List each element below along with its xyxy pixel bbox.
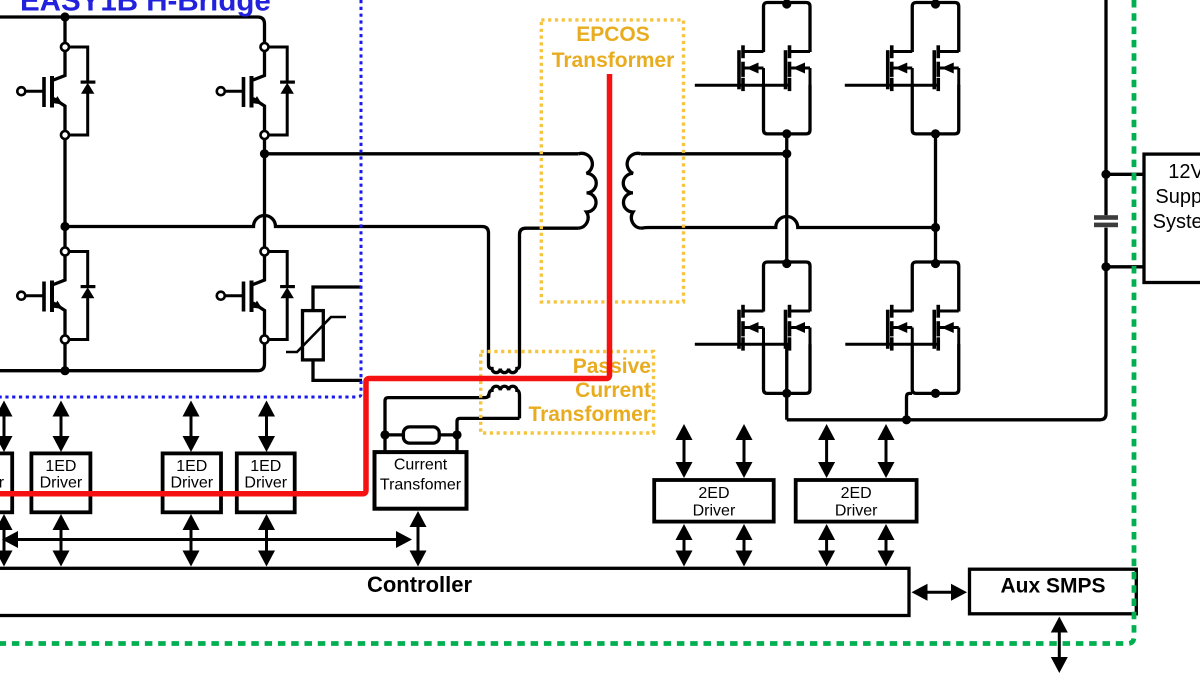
inductor primary winding — [579, 153, 597, 228]
wire gate stub M3/M4 — [845, 84, 938, 87]
thermistor RT1 slash — [286, 317, 346, 352]
wire primary top — [265, 152, 579, 155]
block Controller — [0, 568, 909, 615]
wire 12V rail upper — [1104, 0, 1107, 215]
wire secondary bottom with hop — [641, 217, 936, 229]
wire rectifier output bus — [787, 228, 1106, 420]
wire thermistor bottom — [313, 360, 362, 381]
wire CT secondary right — [457, 418, 520, 431]
arrow 1ED Driver 2 to controller — [53, 514, 70, 530]
inductor secondary winding — [623, 153, 641, 228]
transistor pair M7/M8 bottom-right — [888, 259, 959, 398]
callout box EPCOS Transformer — [541, 20, 683, 302]
inductor CT secondary turn — [489, 386, 520, 418]
wire left leg bottom — [63, 344, 66, 371]
svg-text:System: System — [1153, 211, 1200, 233]
wire highlighted current path (red) — [0, 74, 610, 494]
wire top DC+ rail — [0, 17, 265, 43]
node burden left — [380, 430, 389, 439]
arrow Current Transformer to controller — [410, 511, 427, 527]
wire CT secondary left — [385, 394, 489, 431]
wire gate stub M5/M6 — [695, 343, 790, 346]
transistor Q3 IGBT bottom-left — [17, 248, 95, 344]
block 12V Supply System — [1144, 154, 1200, 282]
wire left column link — [785, 134, 788, 262]
svg-text:Driver: Driver — [0, 475, 5, 492]
block 1ED Driver 1 — [0, 453, 12, 512]
callout box Passive Current Transformer — [481, 352, 654, 434]
node phase B junction — [260, 149, 269, 158]
wire phase A mid rail with hop — [65, 216, 489, 362]
svg-text:2ED: 2ED — [841, 485, 872, 502]
node phase A junction — [60, 222, 69, 231]
arrow 2ED Driver 2 to rectifier — [878, 424, 895, 440]
arrow controller to Aux SMPS — [912, 584, 928, 601]
transistor Q1 IGBT top-left — [17, 43, 95, 139]
wire M5/M6 centre tap down — [785, 344, 788, 420]
transistor pair M5/M6 bottom-left — [739, 259, 810, 398]
wire to supply system top — [1106, 173, 1146, 176]
arrow H-bridge to 1ED Driver 4 — [258, 401, 275, 417]
wire left leg drop — [63, 17, 66, 43]
transistor pair M1/M2 top-left — [739, 0, 810, 139]
wire left leg mid — [63, 139, 66, 248]
node secondary bottom junction — [931, 223, 940, 232]
block Aux SMPS — [970, 569, 1137, 614]
node top rail / left leg junction — [60, 12, 69, 21]
svg-text:1ED: 1ED — [250, 458, 281, 475]
block 1ED Driver 3 — [163, 453, 221, 512]
svg-text:1ED: 1ED — [45, 458, 76, 475]
svg-text:Driver: Driver — [693, 503, 736, 520]
wire to supply system bottom — [1106, 265, 1146, 268]
block 1ED Driver 2 — [31, 453, 90, 512]
node burden right — [452, 430, 461, 439]
wire thermistor top — [313, 287, 361, 311]
node 12V supply bottom — [1101, 262, 1110, 271]
svg-text:Transfomer: Transfomer — [380, 477, 462, 494]
thermistor RT1 body — [303, 311, 324, 360]
block 2ED Driver 2 — [796, 480, 917, 522]
transistor Q4 IGBT bottom-right — [217, 248, 295, 344]
svg-text:1ED: 1ED — [176, 458, 207, 475]
arrow signal bus horizontal — [2, 531, 18, 548]
svg-text:Driver: Driver — [40, 475, 83, 492]
arrow 2ED Driver 2 to controller — [818, 524, 835, 540]
block 2ED Driver 1 — [654, 480, 774, 522]
node DC- rail junction — [60, 366, 69, 375]
svg-text:Driver: Driver — [835, 503, 878, 520]
node rectifier output junction — [902, 415, 911, 424]
node secondary top junction — [782, 149, 791, 158]
block Current Transformer — [375, 452, 467, 509]
svg-text:Current: Current — [394, 457, 448, 474]
wire to burden resistor — [385, 433, 403, 436]
wire burden to CT box — [383, 435, 386, 452]
svg-text:Current: Current — [575, 379, 651, 402]
svg-text:Transformer: Transformer — [528, 403, 651, 426]
svg-text:EPCOS: EPCOS — [576, 23, 650, 46]
svg-text:Aux SMPS: Aux SMPS — [1000, 575, 1105, 598]
svg-text:Supply: Supply — [1155, 186, 1200, 208]
arrow H-bridge to 1ED Driver 1 — [0, 401, 13, 417]
transistor Q2 IGBT top-right — [217, 43, 295, 139]
wire gate stub M7/M8 — [845, 343, 938, 346]
arrow 1ED Driver 1 to controller — [0, 514, 13, 530]
wire gate stub M1/M2 — [695, 84, 790, 87]
wire right column link — [934, 134, 937, 262]
svg-text:Driver: Driver — [244, 475, 287, 492]
wire M7/M8 source down — [907, 393, 913, 419]
arrow 2ED Driver 2 to rectifier — [818, 424, 835, 440]
svg-text:12V: 12V — [1168, 161, 1200, 183]
wire right leg mid — [263, 139, 266, 248]
resistor burden R1 — [403, 427, 439, 443]
svg-text:EASY1B H-Bridge: EASY1B H-Bridge — [20, 0, 271, 18]
capacitor C1 plates — [1094, 215, 1118, 220]
arrow 2ED Driver 1 to rectifier — [736, 424, 753, 440]
wire secondary top — [641, 152, 787, 155]
arrow 2ED Driver 1 to controller — [736, 524, 753, 540]
arrow 1ED Driver 4 to controller — [258, 514, 275, 530]
block 1ED Driver 4 — [237, 453, 295, 512]
wire bottom DC- rail — [0, 344, 265, 371]
wire primary bottom — [520, 228, 579, 362]
svg-text:Controller: Controller — [367, 572, 473, 597]
arrow H-bridge to 1ED Driver 3 — [183, 401, 200, 417]
node 12V supply top — [1101, 170, 1110, 179]
inductor CT primary turn — [489, 362, 520, 373]
arrow 2ED Driver 1 to controller — [676, 524, 693, 540]
svg-text:2ED: 2ED — [698, 485, 729, 502]
transistor pair M3/M4 top-right — [888, 0, 959, 139]
arrow 2ED Driver 1 to rectifier — [676, 424, 693, 440]
svg-text:Transformer: Transformer — [552, 49, 675, 72]
arrow 2ED Driver 2 to controller — [878, 524, 895, 540]
boundary EASY1B module (blue dotted) — [0, 0, 361, 397]
arrow 1ED Driver 3 to controller — [183, 514, 200, 530]
arrow Aux SMPS external — [1051, 617, 1068, 633]
arrow H-bridge to 1ED Driver 2 — [53, 401, 70, 417]
svg-text:Driver: Driver — [170, 475, 213, 492]
